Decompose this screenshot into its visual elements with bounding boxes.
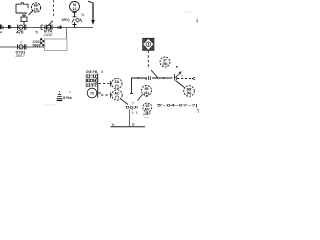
svg-text:3M1?: 3M1?	[16, 54, 25, 58]
branch arrow	[192, 77, 195, 79]
circle pin 73	[87, 88, 97, 98]
ignition switch cluster	[72, 19, 82, 23]
connector pair T2	[18, 44, 26, 49]
svg-text:3·. 5: 3·. 5	[132, 111, 138, 115]
circle AC	[112, 90, 122, 100]
svg-text:t·: t·	[132, 122, 135, 127]
junction dot	[138, 77, 140, 79]
dashed lead below lamp	[147, 51, 149, 70]
divider vertical	[129, 110, 131, 127]
svg-text:4: 4	[0, 31, 2, 35]
inline component E	[8, 25, 12, 29]
svg-text:ʾ|′: ʾ|′	[132, 100, 135, 105]
svg-text:DQJI: DQJI	[126, 106, 138, 110]
capacitor C plates	[16, 13, 27, 17]
svg-text:5ʹ–04–0?–?|: 5ʹ–04–0?–?|	[157, 104, 198, 108]
arrow wire (down arrow)	[88, 1, 95, 25]
svg-text:····: ····	[145, 115, 149, 119]
connector pair with blade	[46, 22, 52, 30]
relay box outline top-left	[16, 3, 28, 13]
circle bottom-mid	[143, 103, 152, 112]
tick on left vertical	[130, 93, 133, 95]
terminal cross	[73, 22, 77, 28]
dashed net line	[53, 0, 55, 18]
relay outline box (gray)	[45, 39, 67, 51]
tick right of bar	[98, 92, 101, 94]
dashed branch right	[177, 78, 191, 80]
terminal mark row2	[110, 92, 112, 97]
svg-text:xx-xx: xx-xx	[184, 10, 191, 14]
junction dot	[163, 77, 165, 79]
svg-text:11Y7: 11Y7	[86, 83, 98, 88]
connector block rows	[85, 74, 97, 88]
middle wire	[0, 46, 45, 48]
terminal mark	[110, 81, 112, 86]
diagonal wire down-right	[121, 99, 128, 104]
divider horizontal	[111, 126, 146, 128]
component box below capacitor	[21, 17, 27, 22]
svg-text:3: 3	[145, 77, 147, 81]
inline connector 3|	[149, 76, 151, 80]
lead to bus	[23, 22, 25, 26]
dashed wire row 1	[99, 83, 111, 85]
svg-text:(*): (*)	[115, 95, 119, 99]
connector pin block (checker)	[40, 38, 44, 46]
terminal dot below circle E37	[176, 66, 178, 68]
svg-text:5: 5	[36, 31, 38, 35]
block right bar	[97, 74, 99, 98]
svg-text:(M): (M)	[163, 62, 168, 66]
svg-text:73: 73	[90, 91, 94, 95]
svg-text:xx xxx: xx xxx	[136, 32, 145, 36]
circle ZA	[112, 78, 122, 88]
off-page terminal left	[0, 25, 2, 30]
double tick terminal	[175, 74, 177, 81]
lead from circle T65 down-left	[138, 94, 143, 100]
svg-text:(*): (*)	[115, 84, 119, 88]
circle F12	[70, 2, 80, 12]
wire down to relay block	[66, 28, 68, 40]
svg-text:ʼ|: ʼ|	[197, 108, 199, 113]
svg-text:OZ4Z: OZ4Z	[44, 33, 53, 37]
svg-text:0663: 0663	[33, 44, 41, 48]
switch blade diagonal to circle S1	[29, 10, 34, 15]
svg-text:(&): (&)	[187, 91, 192, 95]
ground symbol	[57, 91, 63, 100]
svg-text:4RV): 4RV)	[62, 18, 71, 22]
switch blade diagonal	[151, 70, 158, 78]
contact brackets	[41, 25, 45, 29]
svg-text:470: 470	[16, 30, 24, 35]
svg-text:12: 12	[73, 7, 77, 11]
connector pair T4a	[18, 25, 26, 30]
circle T65 mid-right	[142, 86, 152, 96]
svg-text:5?0a: 5?0a	[63, 96, 73, 100]
bus corner right	[132, 78, 148, 94]
wire up-right with arrow	[175, 73, 181, 78]
circle S1	[31, 3, 40, 12]
faint smudge	[45, 104, 55, 106]
circle bottom-right	[184, 86, 195, 97]
contact mark	[60, 26, 62, 29]
junction dot	[57, 27, 59, 29]
tick below circle T65	[145, 96, 148, 98]
fuse I-beam link	[73, 12, 77, 16]
diagonal to circle	[176, 81, 185, 88]
svg-text:1D: 1D	[34, 7, 39, 11]
wire segment right	[152, 77, 173, 79]
svg-text:(&): (&)	[144, 91, 149, 95]
indicator lamp symbol (diamond in square)	[143, 38, 154, 50]
dashed wire row 2	[101, 94, 110, 96]
top bus wire	[2, 27, 94, 29]
circle E37	[160, 57, 170, 67]
svg-text:ʼ1: ʼ1	[81, 13, 84, 17]
